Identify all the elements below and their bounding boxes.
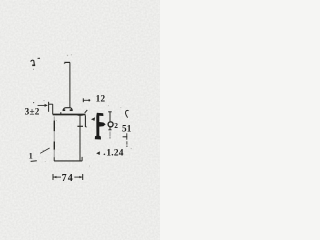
dim 51 top curl (125, 110, 128, 117)
step notch on shelf (60, 112, 62, 114)
dim 51 bottom marks (123, 133, 128, 147)
svg-text:74: 74 (62, 173, 74, 184)
svg-text:1.24: 1.24 (106, 149, 123, 159)
label 1 bottom-left (29, 148, 50, 161)
svg-text:2: 2 (114, 121, 118, 130)
bottom line with corner ticks (54, 157, 82, 161)
svg-text:3±2: 3±2 (25, 107, 40, 117)
right leg vertical (77, 115, 83, 161)
svg-text:12: 12 (96, 93, 106, 103)
dim 74 (53, 174, 83, 180)
svg-text:51: 51 (122, 123, 132, 133)
vertical reference line with top corner (64, 62, 70, 107)
pin second vertical with hooks (85, 110, 88, 127)
leader arrowhead at pin (91, 117, 95, 121)
left leg vertical (broken scan line) (53, 117, 55, 121)
label mark top-left (31, 58, 40, 70)
leader 1.24 (96, 151, 105, 155)
dim 12 (83, 98, 90, 102)
left step outline (49, 102, 53, 115)
dim 3±2 arrow (33, 100, 48, 107)
loop dimension line (108, 112, 113, 139)
hump (bent tab radius) (63, 108, 73, 111)
body top shelf line (53, 114, 86, 116)
clip silhouette (95, 113, 106, 140)
scan noise specks (45, 54, 132, 166)
svg-text:1: 1 (29, 151, 33, 160)
